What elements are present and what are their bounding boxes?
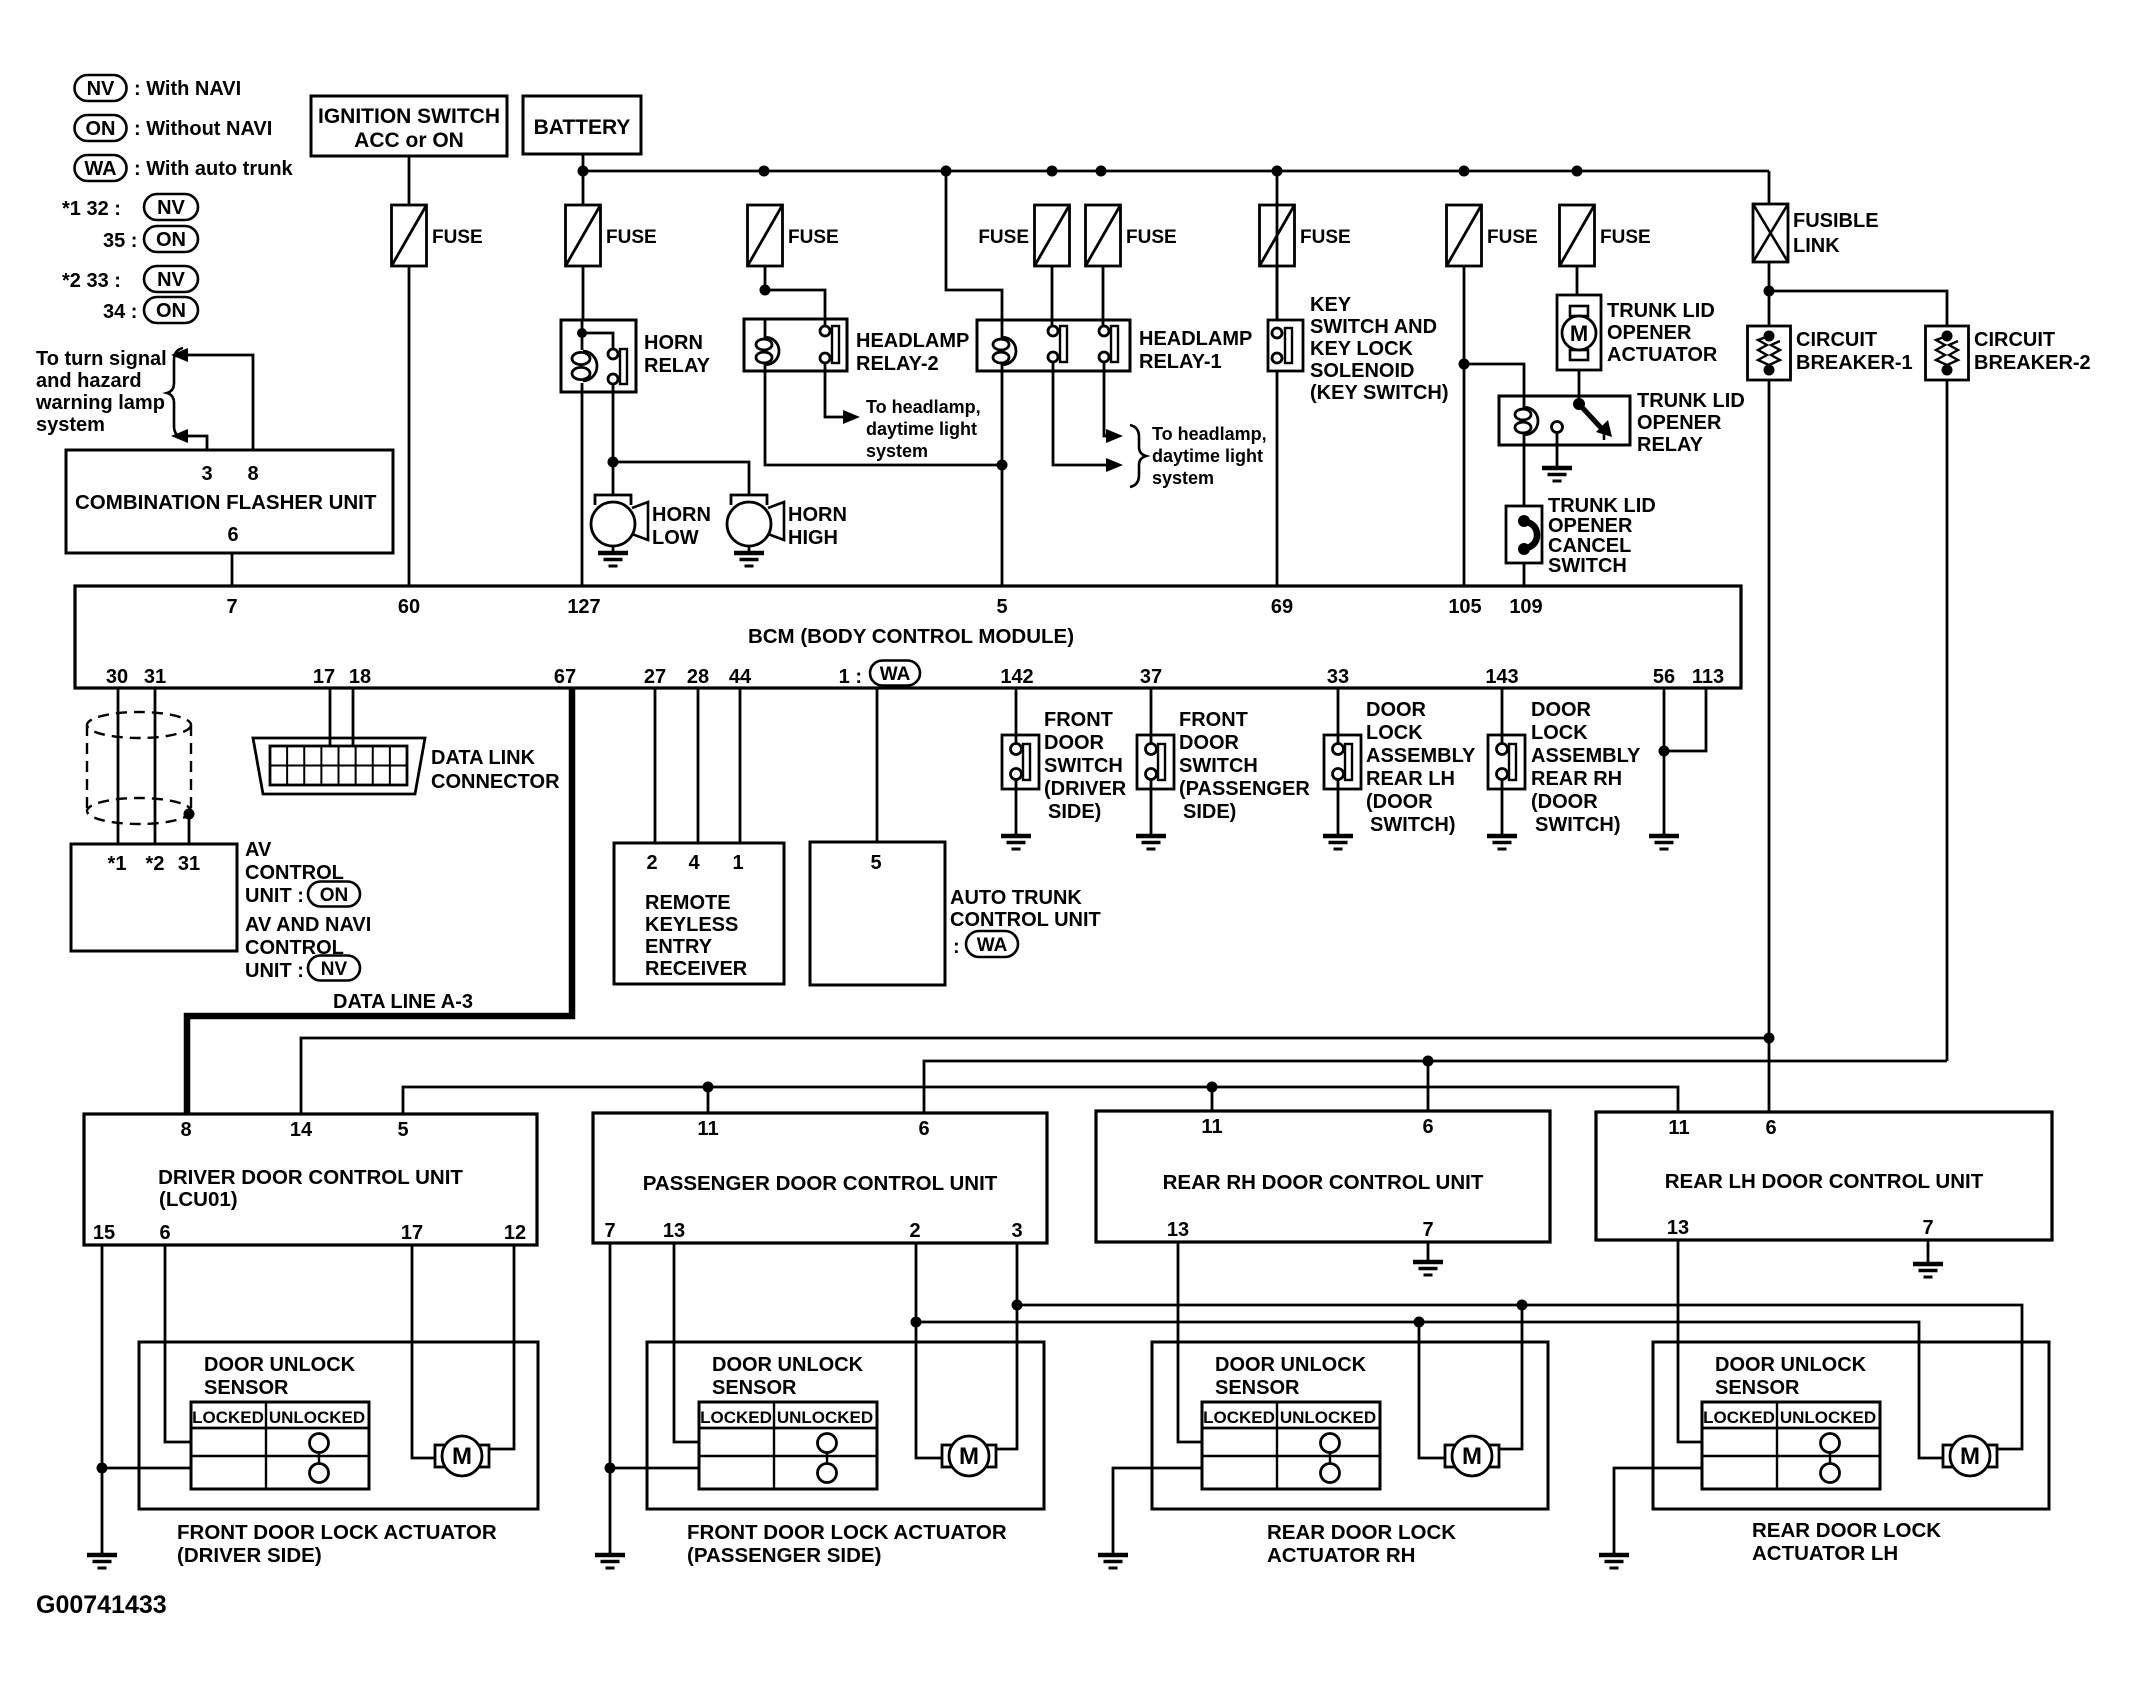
wire rear LH pin 7 to ground: [1927, 1240, 1930, 1264]
label HORN HIGH: [788, 504, 847, 549]
fuse F4 (headlamp relay-1 a): [978, 205, 1069, 266]
svg-text:DATA LINE A-3: DATA LINE A-3: [333, 991, 473, 1013]
svg-text:UNIT :: UNIT :: [245, 885, 304, 907]
svg-text:SWITCH): SWITCH): [1535, 814, 1621, 836]
svg-text:ENTRY: ENTRY: [645, 936, 713, 958]
junction shield: [184, 809, 195, 820]
svg-text:OPENER: OPENER: [1548, 515, 1633, 537]
label AV AND NAVI CONTROL UNIT : NV: [245, 914, 371, 982]
svg-text:SENSOR: SENSOR: [712, 1377, 797, 1399]
legend 35 : ON: [103, 226, 198, 252]
svg-text:4: 4: [688, 852, 700, 874]
svg-text:(DRIVER: (DRIVER: [1044, 778, 1127, 800]
svg-text:SENSOR: SENSOR: [1715, 1377, 1800, 1399]
wire horn relay contact to horns: [612, 384, 615, 462]
svg-text:FUSE: FUSE: [788, 227, 839, 248]
ground driver actuator: [87, 1555, 117, 1568]
legend *2 33 : NV: [62, 266, 198, 292]
svg-text:daytime light: daytime light: [866, 419, 977, 439]
svg-text:7: 7: [604, 1220, 615, 1242]
svg-text:REAR LH DOOR CONTROL UNIT: REAR LH DOOR CONTROL UNIT: [1665, 1170, 1984, 1193]
svg-text:RELAY-1: RELAY-1: [1139, 351, 1222, 373]
wire driver pin 6 to sensor: [165, 1245, 191, 1442]
svg-text:LOCK: LOCK: [1531, 722, 1588, 744]
svg-text:FRONT DOOR LOCK ACTUATOR: FRONT DOOR LOCK ACTUATOR: [687, 1521, 1007, 1544]
svg-text:RELAY: RELAY: [644, 355, 711, 377]
label REAR DOOR LOCK ACTUATOR RH: [1267, 1521, 1456, 1567]
brace turn signal: [167, 348, 183, 438]
svg-text:LOCKED: LOCKED: [1703, 1408, 1775, 1427]
svg-text:33: 33: [1327, 666, 1349, 688]
svg-text:8: 8: [247, 463, 258, 485]
label AV CONTROL UNIT : ON: [245, 839, 360, 907]
svg-text:LOCKED: LOCKED: [192, 1408, 264, 1427]
ignition switch box: [311, 96, 507, 156]
rear door lock actuator LH outer box: [1653, 1342, 2049, 1509]
wire battery to bus: [582, 154, 585, 205]
horn relay coil: [572, 320, 597, 392]
ground rear LH unit: [1913, 1264, 1943, 1277]
svg-text:6: 6: [1422, 1116, 1433, 1138]
ground: [1487, 836, 1517, 849]
label HORN RELAY: [644, 332, 711, 377]
wire C driver pin 5 to rear LH pin 11: [403, 1087, 1678, 1114]
legend ON : Without NAVI: [75, 115, 273, 141]
svg-text:RECEIVER: RECEIVER: [645, 958, 748, 980]
svg-text:(PASSENGER: (PASSENGER: [1179, 778, 1310, 800]
headlamp relay-1 coil: [993, 320, 1016, 371]
svg-text:FRONT: FRONT: [1179, 709, 1248, 731]
ground: [734, 553, 764, 566]
junction wire E passenger 2: [911, 1317, 922, 1328]
svg-text:NV: NV: [157, 197, 185, 219]
svg-text:SIDE): SIDE): [1048, 801, 1101, 823]
label to turn signal and hazard warning lamp system: [35, 348, 167, 436]
label REAR DOOR LOCK ACTUATOR LH: [1752, 1519, 1941, 1565]
fuse F2 (horn relay): [566, 205, 657, 266]
front door lock actuator driver sensor contact circles: [310, 1434, 329, 1483]
svg-text:DOOR: DOOR: [1179, 732, 1240, 754]
front door lock actuator passenger outer box: [647, 1342, 1044, 1509]
rear door lock actuator LH sensor contact circles: [1821, 1434, 1840, 1483]
svg-text:CONNECTOR: CONNECTOR: [431, 771, 560, 793]
wire BCM pin 44 to receiver: [739, 688, 742, 843]
wire BCM pin 27 to receiver: [654, 688, 657, 843]
svg-text:SOLENOID: SOLENOID: [1310, 360, 1414, 382]
wire F4 to relay-1 contact a: [1051, 266, 1054, 327]
svg-text:AUTO TRUNK: AUTO TRUNK: [950, 887, 1082, 909]
horn low: [591, 495, 648, 546]
svg-text:(DRIVER SIDE): (DRIVER SIDE): [177, 1544, 322, 1567]
svg-text:6: 6: [227, 524, 238, 546]
svg-text:SWITCH: SWITCH: [1179, 755, 1258, 777]
wire shield to AV unit pin 31: [188, 814, 191, 844]
wire F3 to node: [764, 266, 767, 290]
wire passenger pin 7 to ground: [609, 1243, 612, 1555]
svg-text:12: 12: [504, 1222, 526, 1244]
junction bus x=946: [941, 166, 952, 177]
front door switch driver side: [1002, 688, 1039, 836]
wire B passenger pin 6 to CB-2 line: [924, 1061, 1947, 1113]
front door lock actuator passenger sensor contact circles: [818, 1434, 837, 1483]
bus wire B+: [583, 170, 1769, 173]
wire F1 to BCM pin 60: [408, 266, 411, 586]
svg-text:HORN: HORN: [644, 332, 703, 354]
wire fusible link to breakers node: [1768, 262, 1771, 291]
svg-text:ON: ON: [156, 229, 186, 251]
horn high: [727, 495, 784, 546]
svg-text:TRUNK LID: TRUNK LID: [1637, 390, 1745, 412]
svg-text:CIRCUIT: CIRCUIT: [1796, 329, 1877, 351]
circuit breaker-1: [1748, 326, 1791, 380]
wire bus to relay-1 coil: [946, 171, 1002, 320]
wire key switch to BCM pin 69: [1276, 371, 1279, 586]
svg-text:BCM (BODY CONTROL MODULE): BCM (BODY CONTROL MODULE): [748, 625, 1074, 648]
wire BCM pin 67 data line (thick): [187, 688, 572, 1114]
svg-text:6: 6: [1765, 1117, 1776, 1139]
front door lock actuator driver sensor table: [191, 1402, 369, 1489]
svg-text:UNLOCKED: UNLOCKED: [269, 1408, 365, 1427]
wire to horn low: [612, 462, 615, 496]
svg-text:M: M: [1570, 321, 1588, 346]
junction wire C rear RH 11: [1207, 1082, 1218, 1093]
svg-text:7: 7: [1922, 1217, 1933, 1239]
label HEADLAMP RELAY-1: [1139, 328, 1252, 373]
wire rear LH pin 13 to sensor: [1678, 1240, 1702, 1442]
wire horn to ground: [748, 546, 751, 553]
label to headlamp daytime light system: [866, 397, 981, 461]
svg-text:AV AND NAVI: AV AND NAVI: [245, 914, 371, 936]
label DATA LINK CONNECTOR: [431, 747, 560, 793]
svg-text:18: 18: [349, 666, 371, 688]
driver door control unit box: [84, 1114, 537, 1245]
svg-text:DOOR UNLOCK: DOOR UNLOCK: [1715, 1354, 1867, 1376]
front door lock actuator driver outer box: [139, 1342, 538, 1509]
svg-text:system: system: [1152, 468, 1214, 488]
wire passenger pin 3 to motor: [995, 1243, 1017, 1449]
ground: [1001, 836, 1031, 849]
svg-text:HORN: HORN: [652, 504, 711, 526]
legend NV : With NAVI: [75, 75, 242, 101]
wire F6 to key switch: [1276, 266, 1279, 320]
ground: [1323, 836, 1353, 849]
svg-text:67: 67: [554, 666, 576, 688]
svg-text:14: 14: [290, 1119, 313, 1141]
label DOOR LOCK ASSEMBLY REAR LH (DOOR SWITCH): [1366, 699, 1476, 836]
svg-text:TRUNK LID: TRUNK LID: [1607, 300, 1715, 322]
svg-text:105: 105: [1448, 596, 1481, 618]
svg-text:and hazard: and hazard: [36, 370, 142, 392]
svg-text:system: system: [866, 441, 928, 461]
svg-text:31: 31: [144, 666, 166, 688]
svg-text:44: 44: [729, 666, 752, 688]
auto trunk control unit box: [810, 842, 945, 985]
svg-text:M: M: [1960, 1443, 1980, 1470]
svg-text:ASSEMBLY: ASSEMBLY: [1531, 745, 1641, 767]
wire rear RH pin 13 to sensor: [1178, 1242, 1202, 1442]
svg-text:DATA LINK: DATA LINK: [431, 747, 536, 769]
svg-text:ON: ON: [86, 118, 116, 140]
label BREAKER-1: [1796, 329, 1913, 374]
rear door lock actuator RH label DOOR UNLOCK SENSOR: [1215, 1354, 1367, 1399]
svg-text:REAR RH DOOR CONTROL UNIT: REAR RH DOOR CONTROL UNIT: [1163, 1171, 1484, 1194]
junction bus x=764: [759, 166, 770, 177]
headlamp relay-1 contacts a: [1048, 326, 1067, 362]
wire passenger pin 11 riser: [707, 1087, 710, 1113]
svg-text:M: M: [959, 1443, 979, 1470]
ground rear RH unit: [1413, 1262, 1443, 1275]
wire node to trunk relay coil: [1464, 364, 1524, 396]
svg-text:UNLOCKED: UNLOCKED: [1780, 1408, 1876, 1427]
headlamp relay-2 box: [744, 319, 847, 371]
front door lock actuator passenger label DOOR UNLOCK SENSOR: [712, 1354, 864, 1399]
svg-text:5: 5: [397, 1119, 408, 1141]
svg-text::: :: [953, 936, 960, 958]
wire horn relay coil to BCM pin 127: [581, 392, 584, 586]
fuse F7 (BCM 105): [1447, 205, 1538, 266]
wire relay-1 contact b to arrow: [1104, 362, 1106, 436]
svg-text:27: 27: [644, 666, 666, 688]
label AUTO TRUNK CONTROL UNIT : WA: [950, 887, 1101, 958]
svg-text:DOOR UNLOCK: DOOR UNLOCK: [204, 1354, 356, 1376]
legend WA : With auto trunk: [75, 155, 294, 181]
fuse F8 (trunk actuator): [1560, 205, 1651, 266]
svg-text:HEADLAMP: HEADLAMP: [856, 330, 969, 352]
svg-text:FUSE: FUSE: [606, 227, 657, 248]
arrow to turn signal 2: [171, 429, 207, 450]
horn relay box: [561, 320, 636, 392]
svg-text:CIRCUIT: CIRCUIT: [1974, 329, 2055, 351]
svg-text:FUSE: FUSE: [1487, 227, 1538, 248]
trunk lid opener cancel switch: [1506, 506, 1542, 563]
ground passenger actuator: [595, 1555, 625, 1568]
svg-text:To headlamp,: To headlamp,: [1152, 424, 1267, 444]
wire bus to fusible link: [1768, 171, 1771, 204]
svg-text:37: 37: [1140, 666, 1162, 688]
svg-text:*1 32 :: *1 32 :: [62, 198, 121, 220]
svg-text:SWITCH: SWITCH: [1044, 755, 1123, 777]
wire passenger pin 13 to sensor: [674, 1243, 699, 1442]
label FRONT DOOR LOCK ACTUATOR (DRIVER SIDE): [177, 1521, 497, 1567]
svg-text:SENSOR: SENSOR: [204, 1377, 289, 1399]
wire rear RH sensor row3 to ground: [1113, 1468, 1202, 1555]
svg-text:ON: ON: [156, 300, 186, 322]
wire circuit breaker-2 down: [1946, 380, 1949, 1061]
svg-text:system: system: [36, 414, 105, 436]
svg-text:ACC or ON: ACC or ON: [354, 129, 464, 152]
svg-text:3: 3: [201, 463, 212, 485]
label TRUNK LID OPENER ACTUATOR: [1607, 300, 1718, 366]
BCM bottom pin 1 : WA: [839, 661, 920, 689]
svg-text:REAR DOOR LOCK: REAR DOOR LOCK: [1752, 1519, 1941, 1542]
svg-text:31: 31: [178, 853, 200, 875]
svg-text:2: 2: [646, 852, 657, 874]
svg-text:AV: AV: [245, 839, 272, 861]
svg-text:(LCU01): (LCU01): [159, 1188, 238, 1211]
rear LH door control unit box: [1596, 1112, 2052, 1240]
ground BCM 56/113: [1649, 836, 1679, 849]
svg-text:LINK: LINK: [1793, 235, 1840, 257]
wire relay-1 coil to BCM pin 5: [1001, 371, 1004, 586]
junction bus x=1277: [1272, 166, 1283, 177]
junction wire D rear RH motor: [1517, 1300, 1528, 1311]
svg-text:LOCKED: LOCKED: [1203, 1408, 1275, 1427]
wire D passenger pin 3 to rear motors (upper): [1017, 1305, 2022, 1449]
label TRUNK LID OPENER CANCEL SWITCH: [1548, 495, 1656, 577]
fuse F6 (key switch): [1260, 205, 1351, 266]
svg-text:REAR LH: REAR LH: [1366, 768, 1455, 790]
wire F5 to relay-1 contact b: [1102, 266, 1105, 327]
wire BCM pin 31 to AV unit: [154, 688, 157, 844]
svg-text:SWITCH AND: SWITCH AND: [1310, 316, 1437, 338]
trunk lid opener actuator: [1557, 295, 1601, 370]
svg-text:PASSENGER DOOR CONTROL UNIT: PASSENGER DOOR CONTROL UNIT: [643, 1172, 998, 1195]
fuse F1 (ignition): [392, 205, 483, 266]
wire relay-2 contact to arrow: [825, 362, 843, 417]
svg-text:BATTERY: BATTERY: [534, 116, 631, 139]
svg-text:FUSIBLE: FUSIBLE: [1793, 210, 1879, 232]
svg-text:UNLOCKED: UNLOCKED: [777, 1408, 873, 1427]
wire driver pin 12 to motor: [488, 1245, 514, 1449]
front door lock actuator passenger motor M: [942, 1436, 996, 1476]
rear door lock actuator LH sensor table: [1702, 1402, 1880, 1489]
label DOOR LOCK ASSEMBLY REAR RH (DOOR SWITCH): [1531, 699, 1641, 836]
svg-text:2: 2: [909, 1220, 920, 1242]
rear door lock actuator RH motor M: [1445, 1436, 1499, 1476]
svg-text:DOOR: DOOR: [1044, 732, 1105, 754]
svg-text:WA: WA: [880, 664, 911, 685]
front door switch passenger side: [1137, 688, 1174, 836]
headlamp relay-1 contacts b: [1099, 326, 1118, 362]
svg-text:FUSE: FUSE: [1300, 227, 1351, 248]
door lock assembly rear RH door switch: [1488, 688, 1525, 836]
svg-text:*2: *2: [146, 853, 165, 875]
svg-text:(PASSENGER SIDE): (PASSENGER SIDE): [687, 1544, 881, 1567]
junction wire C passenger 11: [703, 1082, 714, 1093]
label BREAKER-2: [1974, 329, 2091, 374]
ground: [598, 553, 628, 566]
wire cancel switch to BCM pin 109: [1523, 563, 1526, 586]
svg-text:WA: WA: [84, 158, 116, 180]
svg-text:6: 6: [159, 1222, 170, 1244]
wire rear RH motor left: [1419, 1322, 1446, 1458]
svg-text:REAR RH: REAR RH: [1531, 768, 1622, 790]
label HORN LOW: [652, 504, 711, 549]
battery box: [523, 96, 641, 154]
wire rear RH pin 11 riser: [1211, 1087, 1214, 1111]
legend *1 32 : NV: [62, 194, 198, 220]
svg-text:DOOR UNLOCK: DOOR UNLOCK: [1215, 1354, 1367, 1376]
svg-text:6: 6: [918, 1118, 929, 1140]
svg-text:NV: NV: [87, 78, 115, 100]
svg-text:NV: NV: [157, 269, 185, 291]
rear door lock actuator LH motor M: [1943, 1436, 1997, 1476]
wire passenger pin 2 to motor: [916, 1243, 943, 1458]
front door lock actuator driver motor M: [435, 1436, 489, 1476]
svg-text:: Without NAVI: : Without NAVI: [134, 118, 272, 140]
wire ignition to fuse: [408, 156, 411, 205]
svg-text:13: 13: [1667, 1217, 1689, 1239]
svg-text:1: 1: [732, 852, 743, 874]
svg-text:FUSE: FUSE: [432, 227, 483, 248]
svg-text:17: 17: [401, 1222, 423, 1244]
svg-text:LOW: LOW: [652, 527, 699, 549]
svg-text:COMBINATION FLASHER UNIT: COMBINATION FLASHER UNIT: [75, 491, 377, 514]
headlamp relay-1 box: [977, 320, 1130, 371]
svg-text:BREAKER-1: BREAKER-1: [1796, 352, 1913, 374]
svg-text:56: 56: [1653, 666, 1675, 688]
wire BCM pin 30 to AV unit: [117, 688, 120, 844]
svg-text:warning lamp: warning lamp: [35, 392, 165, 414]
wire BCM pin 1 to auto trunk control unit: [876, 688, 879, 842]
circuit breaker-2: [1926, 326, 1969, 380]
svg-text:RELAY: RELAY: [1637, 434, 1704, 456]
fuse F5 (headlamp relay-1 b): [1086, 205, 1177, 266]
svg-text:69: 69: [1271, 596, 1293, 618]
svg-text:M: M: [1462, 1443, 1482, 1470]
junction passenger sensor feed: [605, 1463, 616, 1474]
horn relay contacts: [608, 349, 627, 384]
svg-text:30: 30: [106, 666, 128, 688]
svg-text:17: 17: [313, 666, 335, 688]
svg-text:7: 7: [1422, 1219, 1433, 1241]
junction wire D passenger 3: [1012, 1300, 1023, 1311]
wire rear RH motor right: [1498, 1305, 1522, 1449]
svg-text:142: 142: [1000, 666, 1033, 688]
rear door lock actuator RH sensor table: [1202, 1402, 1380, 1489]
svg-text:KEYLESS: KEYLESS: [645, 914, 738, 936]
svg-text:113: 113: [1692, 666, 1724, 688]
svg-text:ASSEMBLY: ASSEMBLY: [1366, 745, 1476, 767]
arrow to headlamp system 2: [1106, 458, 1123, 472]
svg-text:OPENER: OPENER: [1637, 412, 1722, 434]
wire driver pin 17 to motor: [412, 1245, 436, 1458]
svg-text:WA: WA: [977, 935, 1008, 956]
shield cylinder (dashed): [87, 712, 191, 824]
svg-text:UNIT :: UNIT :: [245, 960, 304, 982]
fusible link FL: [1753, 204, 1879, 262]
svg-text:13: 13: [1167, 1219, 1189, 1241]
wire relay-2 coil to node: [765, 371, 1002, 465]
svg-text:REAR DOOR LOCK: REAR DOOR LOCK: [1267, 1521, 1456, 1544]
svg-text:FUSE: FUSE: [978, 227, 1029, 248]
rear door lock actuator RH sensor contact circles: [1321, 1434, 1340, 1483]
svg-text:daytime light: daytime light: [1152, 446, 1263, 466]
svg-text:REMOTE: REMOTE: [645, 892, 731, 914]
svg-text:HEADLAMP: HEADLAMP: [1139, 328, 1252, 350]
svg-text:HIGH: HIGH: [788, 527, 838, 549]
svg-text:KEY: KEY: [1310, 294, 1352, 316]
svg-text:CANCEL: CANCEL: [1548, 535, 1631, 557]
svg-text:35 :: 35 :: [103, 230, 137, 252]
wire node to circuit breaker-2: [1769, 291, 1947, 326]
label HEADLAMP RELAY-2: [856, 330, 969, 375]
wire F7 node to BCM pin 105: [1463, 364, 1466, 586]
svg-text:IGNITION SWITCH: IGNITION SWITCH: [318, 105, 500, 128]
junction bus x=1052: [1047, 166, 1058, 177]
svg-text:FUSE: FUSE: [1600, 227, 1651, 248]
svg-text:RELAY-2: RELAY-2: [856, 353, 939, 375]
BCM body control module box: [75, 586, 1741, 688]
front door lock actuator passenger sensor table: [699, 1402, 877, 1489]
label FRONT DOOR SWITCH (PASSENGER SIDE): [1179, 709, 1310, 823]
rear door lock actuator LH label DOOR UNLOCK SENSOR: [1715, 1354, 1867, 1399]
trunk lid opener relay box: [1499, 396, 1630, 445]
junction relay-2 feed: [760, 285, 771, 296]
svg-text:NV: NV: [321, 959, 348, 980]
wire relay-1 contact a to arrow: [1053, 362, 1106, 465]
svg-text:KEY LOCK: KEY LOCK: [1310, 338, 1414, 360]
